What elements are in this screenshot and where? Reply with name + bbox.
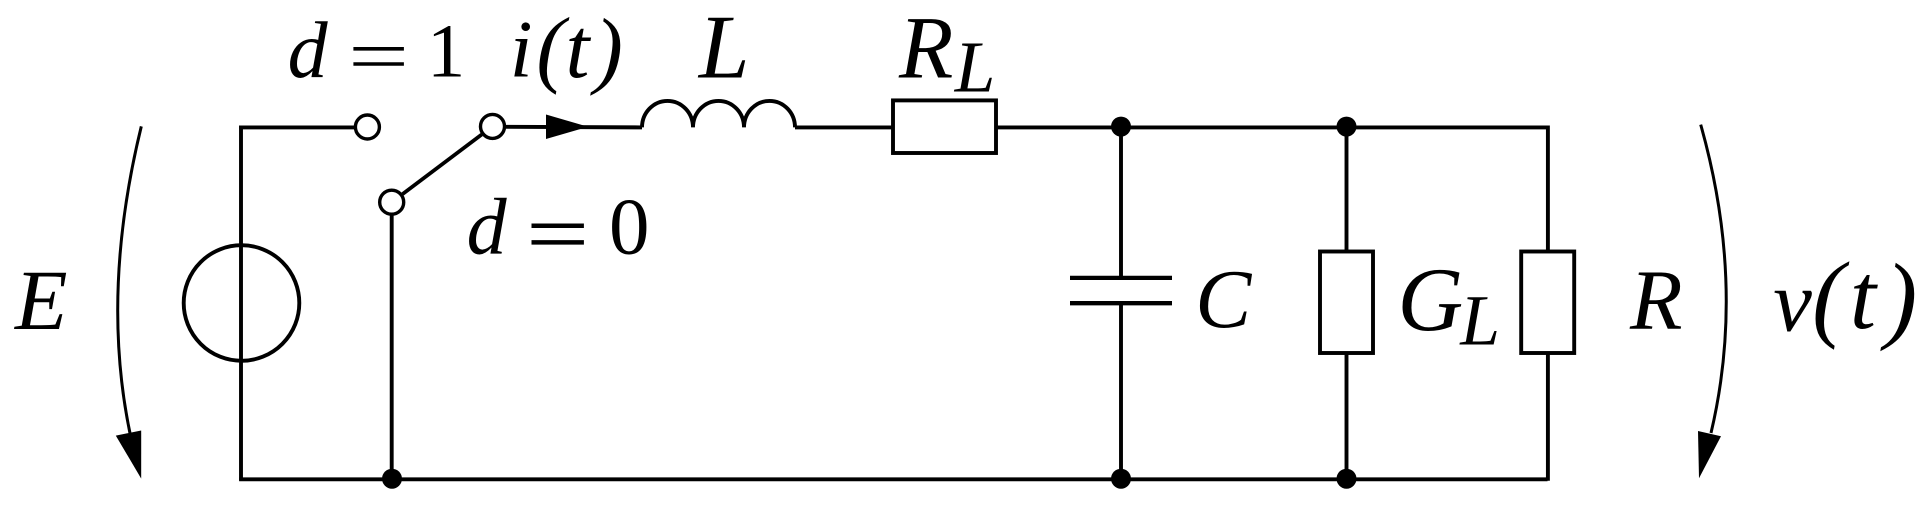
- svg-text:t: t: [1850, 245, 1878, 349]
- svg-text:L: L: [1459, 282, 1500, 361]
- svg-text:C: C: [1195, 253, 1252, 346]
- svg-text:v: v: [1773, 253, 1812, 350]
- svg-text:L: L: [954, 27, 996, 108]
- svg-text:0: 0: [609, 182, 650, 272]
- svg-text:R: R: [898, 0, 953, 97]
- svg-text:L: L: [697, 0, 750, 98]
- svg-text:): ): [1880, 244, 1917, 351]
- svg-text:E: E: [13, 252, 68, 348]
- svg-text:): ): [589, 1, 623, 97]
- svg-text:d: d: [288, 7, 329, 95]
- svg-text:(: (: [1812, 243, 1850, 350]
- svg-text:i: i: [510, 4, 533, 95]
- svg-text:1: 1: [427, 8, 465, 93]
- svg-text:R: R: [1629, 251, 1683, 347]
- svg-text:G: G: [1398, 249, 1464, 350]
- svg-text:t: t: [566, 0, 592, 96]
- svg-text:d: d: [467, 184, 508, 272]
